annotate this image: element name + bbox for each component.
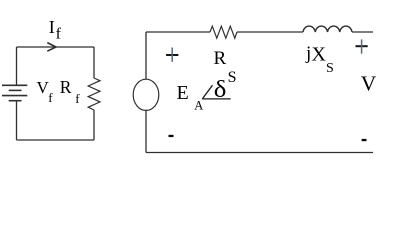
svg-text:R: R xyxy=(60,77,72,97)
svg-text:S: S xyxy=(228,69,237,86)
svg-text:f: f xyxy=(48,90,53,105)
svg-text:A: A xyxy=(194,98,203,112)
svg-text:δ: δ xyxy=(214,75,227,102)
svg-text:E: E xyxy=(177,82,189,104)
svg-text:X: X xyxy=(312,44,327,66)
svg-text:f: f xyxy=(56,26,62,43)
svg-text:S: S xyxy=(326,61,334,76)
svg-text:I: I xyxy=(49,17,55,37)
svg-text:R: R xyxy=(214,48,227,69)
svg-text:V: V xyxy=(361,71,377,95)
svg-text:j: j xyxy=(305,43,311,64)
svg-text:f: f xyxy=(75,91,80,106)
